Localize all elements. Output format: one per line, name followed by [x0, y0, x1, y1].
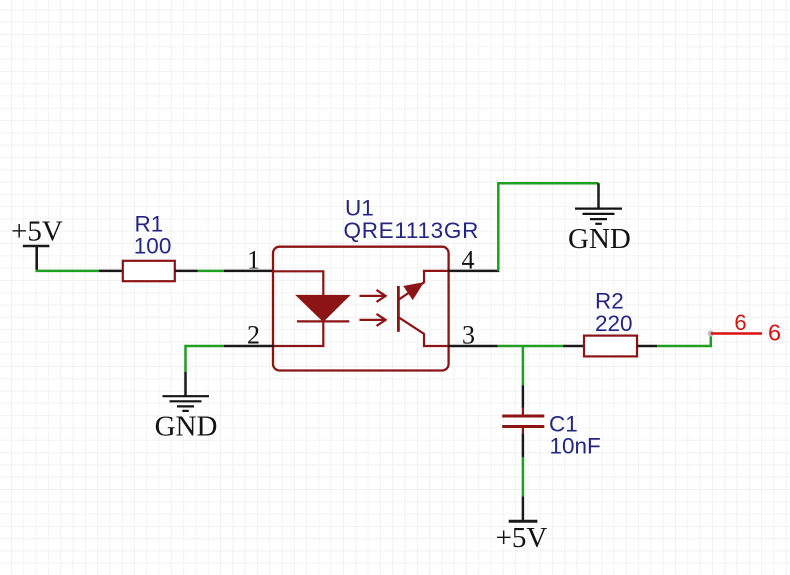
- wire R1 to U1 pin1: [198, 270, 225, 273]
- U1 emission arrow 2: [360, 314, 386, 326]
- svg-text:+5V: +5V: [11, 216, 63, 248]
- svg-text:4: 4: [462, 246, 475, 275]
- ground symbol (left): [163, 396, 210, 411]
- U1 internal anode wiring: [273, 271, 323, 296]
- U1 LED diode D: [297, 296, 349, 321]
- ground lead (left): [184, 372, 187, 396]
- svg-text:3: 3: [462, 321, 475, 350]
- resistor R1 pin1 lead: [99, 270, 123, 273]
- capacitor C1: [502, 408, 544, 434]
- U1 phototransistor collector: [398, 271, 448, 300]
- U1 collector arrowhead: [405, 284, 422, 299]
- wire branch node to C1: [522, 346, 525, 385]
- svg-text:6: 6: [734, 310, 746, 335]
- svg-text:GND: GND: [155, 411, 218, 443]
- svg-text:GND: GND: [568, 223, 631, 255]
- svg-text:U1: U1: [345, 196, 374, 221]
- wire +5V to R1: [36, 270, 100, 273]
- svg-text:6: 6: [768, 320, 781, 346]
- svg-text:100: 100: [134, 234, 172, 259]
- resistor R1 pin2 lead: [175, 270, 198, 273]
- svg-text:1: 1: [247, 246, 260, 275]
- svg-text:10nF: 10nF: [550, 434, 601, 459]
- optocoupler U1 body: [273, 247, 449, 371]
- capacitor C1 top leg: [522, 385, 525, 408]
- power +5V (top left): [23, 246, 50, 271]
- resistor R2 pin1 lead: [563, 345, 584, 348]
- power +5V (bottom): [509, 496, 538, 521]
- wire R2 to node 6: [657, 334, 711, 347]
- U1 pin 1 leg: [224, 270, 274, 273]
- U1 internal cathode wiring: [273, 321, 323, 346]
- net 6 wire (red): [711, 332, 762, 335]
- wire U1 pin3 to R2: [498, 345, 563, 348]
- U1 emission arrow 1: [360, 290, 386, 302]
- wire U1 pin4 to GND (top right): [498, 183, 598, 271]
- resistor R1: [123, 261, 175, 281]
- U1 pin 3 leg: [448, 345, 497, 348]
- svg-text:R2: R2: [595, 289, 624, 314]
- capacitor C1 bottom leg: [522, 434, 525, 458]
- U1 LED cathode bar: [297, 320, 349, 322]
- junction node: [708, 330, 714, 336]
- resistor R2 pin2 lead: [637, 345, 657, 348]
- svg-text:QRE1113GR: QRE1113GR: [344, 218, 480, 243]
- U1 pin 4 leg: [448, 270, 499, 273]
- U1 phototransistor base bar: [397, 286, 400, 332]
- ground lead (top right): [597, 183, 600, 208]
- U1 phototransistor emitter: [398, 317, 448, 346]
- wire U1 pin2 to GND: [186, 346, 225, 372]
- svg-text:+5V: +5V: [496, 522, 548, 554]
- resistor R2: [584, 336, 637, 357]
- U1 pin 2 leg: [224, 345, 274, 348]
- svg-text:2: 2: [247, 321, 260, 350]
- svg-text:220: 220: [595, 311, 633, 336]
- ground symbol (top right): [575, 209, 622, 224]
- wire C1 to +5V (bottom): [522, 457, 525, 496]
